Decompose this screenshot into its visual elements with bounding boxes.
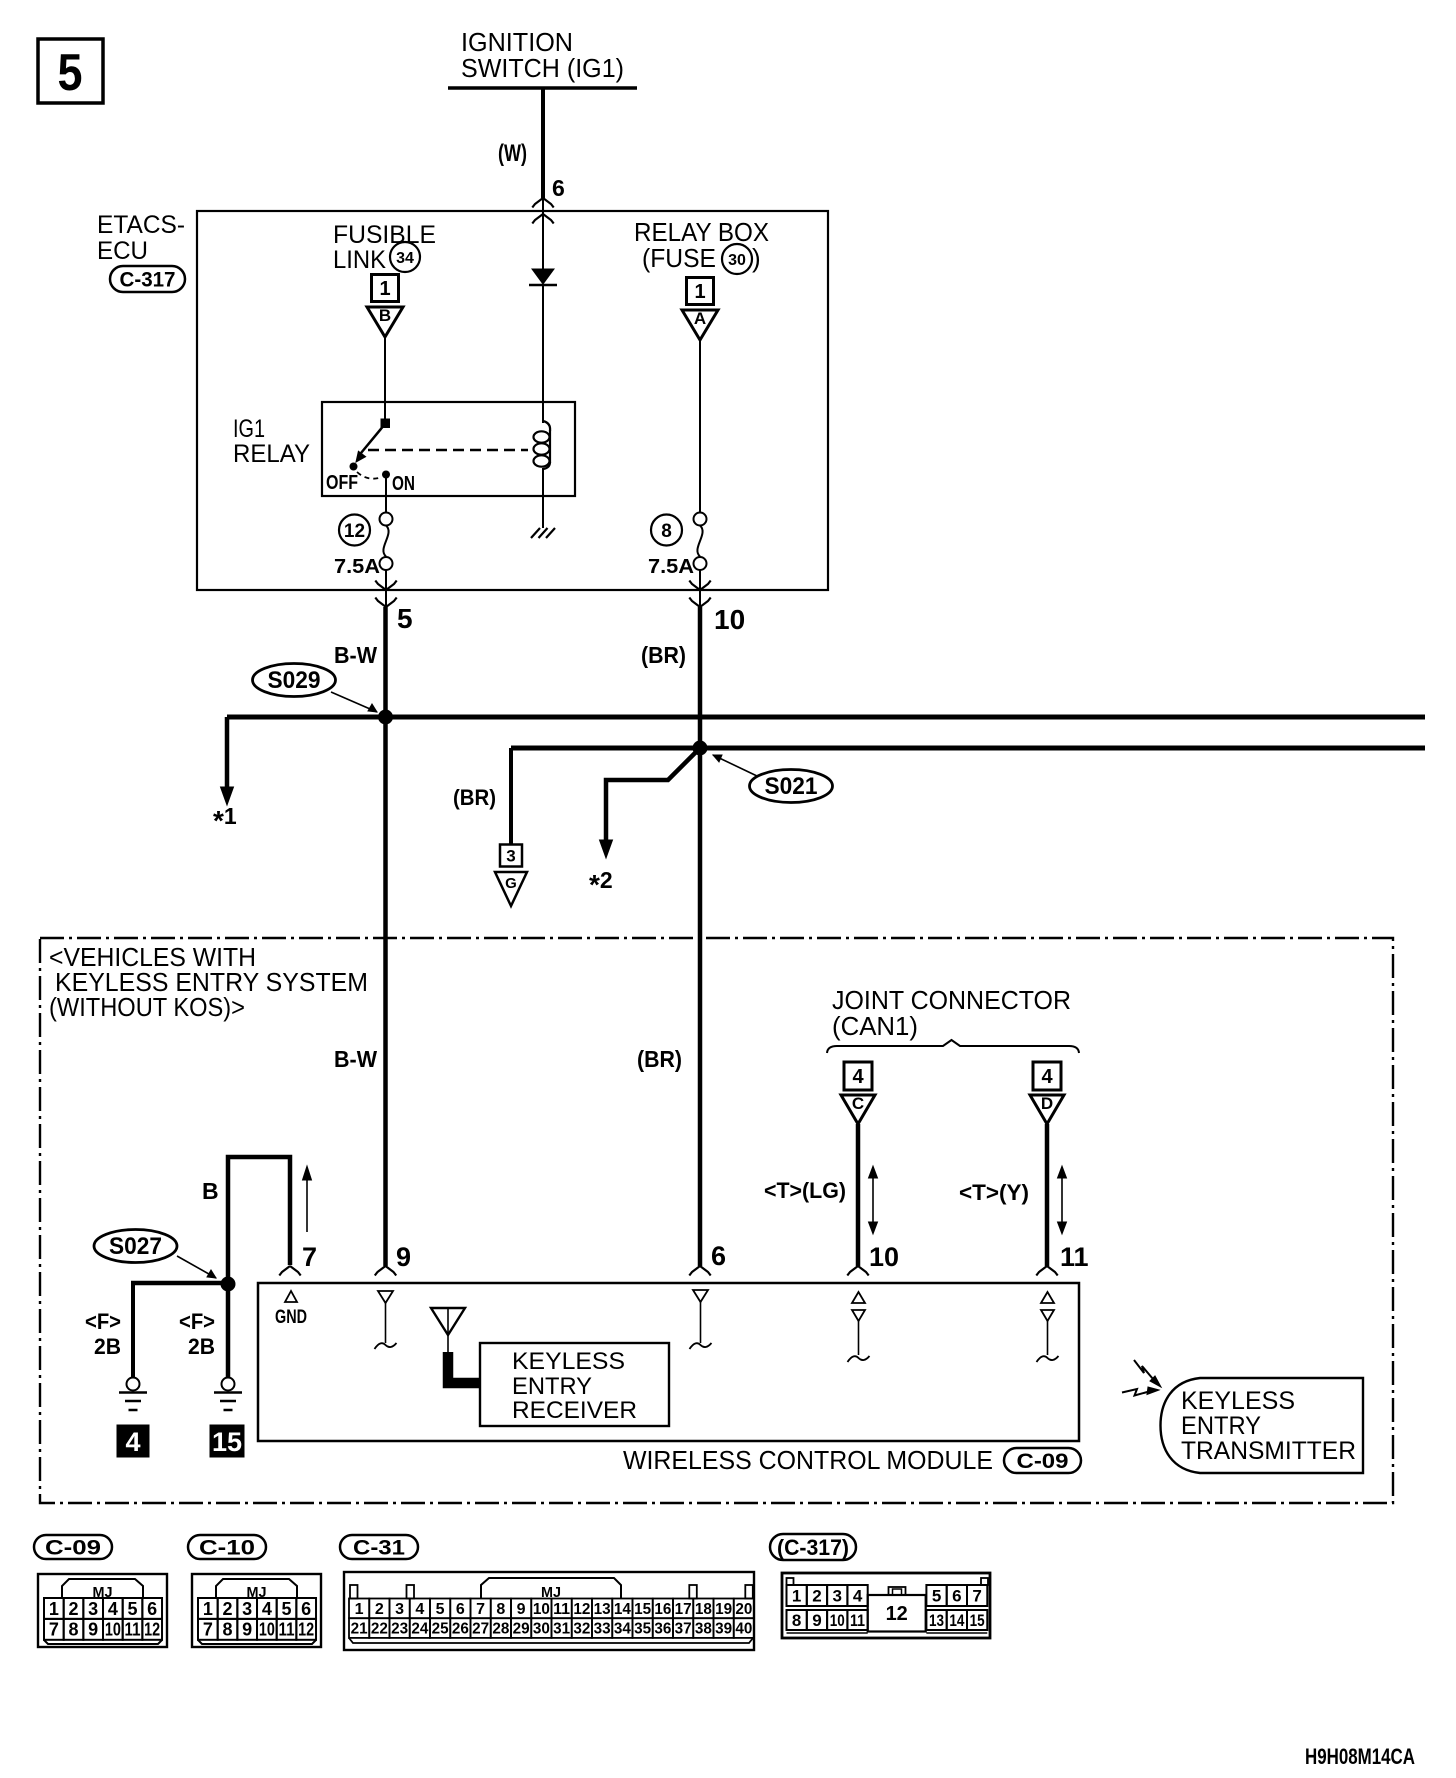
- svg-text:25: 25: [432, 1621, 449, 1638]
- svg-text:5: 5: [932, 1587, 941, 1606]
- svg-text:2: 2: [812, 1587, 821, 1606]
- svg-text:14: 14: [614, 1601, 631, 1618]
- svg-text:21: 21: [351, 1621, 368, 1638]
- svg-text:): ): [752, 243, 761, 273]
- svg-text:34: 34: [614, 1621, 631, 1638]
- svg-text:ETACS-: ETACS-: [97, 211, 185, 239]
- branch wire to *2: [589, 748, 700, 900]
- splice S029: [253, 664, 394, 725]
- svg-text:9: 9: [242, 1620, 252, 1640]
- svg-text:8: 8: [792, 1611, 801, 1630]
- svg-text:1: 1: [49, 1599, 59, 1619]
- svg-text:32: 32: [573, 1621, 590, 1638]
- svg-text:S029: S029: [268, 667, 321, 694]
- branch wire to *1: [213, 717, 237, 836]
- svg-text:C-10: C-10: [199, 1537, 255, 1560]
- svg-text:4: 4: [262, 1599, 272, 1619]
- svg-text:(WITHOUT KOS)>: (WITHOUT KOS)>: [49, 992, 245, 1022]
- svg-text:C: C: [852, 1094, 864, 1113]
- svg-text:15: 15: [634, 1601, 651, 1618]
- svg-text:12: 12: [298, 1620, 314, 1640]
- svg-text:2: 2: [222, 1599, 232, 1619]
- svg-text:7: 7: [302, 1242, 317, 1272]
- svg-text:G: G: [505, 875, 517, 892]
- sheet number box 5: [38, 39, 103, 103]
- svg-text:C-317: C-317: [120, 269, 176, 292]
- ground symbol left: [119, 1378, 147, 1411]
- svg-text:27: 27: [472, 1621, 489, 1638]
- ground branch wires from S027: [131, 1283, 228, 1378]
- svg-text:29: 29: [513, 1621, 530, 1638]
- wireless control module box C-09: [258, 1283, 1079, 1475]
- splice S021: [693, 741, 833, 803]
- module connector label C-09: [1004, 1448, 1081, 1473]
- bidirectional arrow pin11: [1058, 1166, 1067, 1234]
- svg-text:31: 31: [553, 1621, 570, 1638]
- relay box connector 1-A: [682, 278, 718, 341]
- svg-text:3: 3: [88, 1599, 98, 1619]
- fuse 8 (7.5A): [648, 513, 707, 608]
- svg-text:38: 38: [695, 1621, 712, 1638]
- svg-text:RECEIVER: RECEIVER: [512, 1397, 637, 1424]
- svg-text:SWITCH (IG1): SWITCH (IG1): [461, 53, 624, 83]
- ground point 4: [117, 1425, 149, 1457]
- connector view C-317 (bottom): [770, 1534, 990, 1638]
- svg-text:6: 6: [147, 1599, 157, 1619]
- svg-text:GND: GND: [275, 1307, 307, 1328]
- wire from fusible link to relay: [384, 337, 386, 421]
- bus wire from S029 to right edge: [227, 715, 1425, 720]
- svg-text:11: 11: [850, 1611, 865, 1630]
- joint connector 4-D: [1030, 1062, 1064, 1124]
- wire (W) from ignition switch: [498, 88, 543, 198]
- svg-text:1: 1: [203, 1599, 213, 1619]
- module pin 7: [275, 1242, 317, 1328]
- svg-text:4: 4: [415, 1601, 424, 1618]
- svg-text:8: 8: [68, 1620, 78, 1640]
- C-317 pin 10: [689, 581, 745, 636]
- svg-text:1: 1: [694, 281, 705, 303]
- svg-text:35: 35: [634, 1621, 651, 1638]
- svg-text:ENTRY: ENTRY: [1181, 1412, 1261, 1440]
- svg-text:9: 9: [88, 1620, 98, 1640]
- svg-text:10: 10: [869, 1242, 899, 1272]
- svg-text:LINK: LINK: [333, 246, 386, 274]
- svg-text:(W): (W): [498, 140, 527, 167]
- svg-text:ON: ON: [392, 473, 415, 495]
- svg-text:5: 5: [436, 1601, 445, 1618]
- svg-text:S027: S027: [109, 1233, 162, 1260]
- svg-text:23: 23: [391, 1621, 408, 1638]
- svg-text:ENTRY: ENTRY: [512, 1373, 592, 1400]
- svg-text:24: 24: [411, 1621, 428, 1638]
- IG1 relay coil: [534, 421, 551, 528]
- svg-text:4: 4: [125, 1427, 140, 1457]
- ground symbol right: [214, 1378, 242, 1411]
- svg-text:6: 6: [552, 175, 565, 201]
- svg-text:12: 12: [344, 521, 365, 542]
- fusible link connector 1-B: [367, 275, 403, 338]
- svg-text:3: 3: [395, 1601, 404, 1618]
- svg-text:2: 2: [375, 1601, 384, 1618]
- svg-text:3: 3: [506, 847, 515, 866]
- bidirectional arrow pin10: [869, 1166, 878, 1234]
- svg-text:28: 28: [492, 1621, 509, 1638]
- svg-text:9: 9: [396, 1242, 411, 1272]
- connector label C-317: [110, 266, 185, 292]
- svg-text:8: 8: [661, 521, 672, 542]
- svg-text:3: 3: [833, 1587, 842, 1606]
- keyless entry system region (dash-dot box): [40, 938, 1393, 1503]
- svg-text:(BR): (BR): [641, 642, 686, 668]
- svg-text:39: 39: [715, 1621, 732, 1638]
- svg-text:<T>(Y): <T>(Y): [959, 1180, 1029, 1205]
- connector view C-10: [188, 1535, 321, 1647]
- connector C-317 pin 6 (ignition feed): [532, 175, 564, 224]
- svg-text:16: 16: [654, 1601, 671, 1618]
- bus wire 2 (BR) to right edge: [511, 746, 1425, 751]
- svg-text:<F>: <F>: [179, 1309, 215, 1334]
- up arrow beside pin 7 wire: [303, 1166, 312, 1232]
- svg-text:(CAN1): (CAN1): [832, 1011, 918, 1041]
- svg-text:10: 10: [830, 1611, 845, 1630]
- module pin 9: [375, 1242, 412, 1349]
- svg-text:10: 10: [105, 1620, 121, 1640]
- svg-text:2: 2: [68, 1599, 78, 1619]
- radio wave symbol: [1122, 1360, 1161, 1396]
- svg-text:4: 4: [1041, 1066, 1053, 1088]
- ground connector 3-G: [495, 845, 527, 907]
- svg-text:40: 40: [735, 1621, 752, 1638]
- svg-text:<F>: <F>: [85, 1309, 121, 1334]
- svg-text:RELAY: RELAY: [233, 440, 310, 468]
- svg-text:10: 10: [533, 1601, 550, 1618]
- svg-text:17: 17: [675, 1601, 692, 1618]
- region caption: [49, 942, 368, 1022]
- svg-text:KEYLESS: KEYLESS: [1181, 1387, 1295, 1415]
- svg-text:1: 1: [355, 1601, 364, 1618]
- svg-text:7: 7: [49, 1620, 59, 1640]
- svg-text:(C-317): (C-317): [777, 1535, 849, 1560]
- svg-text:15: 15: [212, 1427, 242, 1457]
- svg-text:5: 5: [397, 603, 413, 634]
- IG1 relay box: [233, 402, 575, 496]
- svg-text:30: 30: [533, 1621, 550, 1638]
- svg-text:8: 8: [496, 1601, 505, 1618]
- svg-text:4: 4: [108, 1599, 118, 1619]
- wire B to module pin 7: [202, 1157, 290, 1286]
- svg-text:14: 14: [949, 1611, 964, 1630]
- svg-text:10: 10: [714, 604, 745, 635]
- svg-text:7: 7: [972, 1587, 981, 1606]
- svg-text:9: 9: [812, 1611, 821, 1630]
- svg-text:D: D: [1041, 1094, 1053, 1113]
- svg-text:FUSIBLE: FUSIBLE: [333, 221, 436, 249]
- module pin 10: [847, 1242, 899, 1362]
- svg-text:9: 9: [517, 1601, 526, 1618]
- svg-text:B: B: [379, 306, 391, 325]
- C-317 pin 5: [375, 581, 412, 635]
- svg-text:6: 6: [952, 1587, 961, 1606]
- wire (BR) (pin 10 down): [641, 607, 700, 1266]
- svg-text:H9H08M14CA: H9H08M14CA: [1305, 1744, 1415, 1769]
- svg-text:7: 7: [203, 1620, 213, 1640]
- relay coil ground: [531, 528, 555, 538]
- svg-text:22: 22: [371, 1621, 388, 1638]
- receiver antenna: [431, 1308, 480, 1383]
- svg-text:33: 33: [594, 1621, 611, 1638]
- ETACS-ECU box: [97, 211, 828, 590]
- diode D on ignition feed: [529, 198, 557, 423]
- svg-text:<T>(LG): <T>(LG): [764, 1178, 846, 1203]
- svg-text:C-09: C-09: [45, 1537, 101, 1560]
- svg-text:6: 6: [456, 1601, 465, 1618]
- svg-text:C-31: C-31: [353, 1537, 405, 1560]
- svg-text:7: 7: [476, 1601, 485, 1618]
- relay box fuse 30 label: [634, 217, 769, 274]
- svg-text:18: 18: [695, 1601, 712, 1618]
- svg-text:3: 3: [242, 1599, 252, 1619]
- svg-text:(FUSE: (FUSE: [642, 243, 716, 273]
- svg-text:ECU: ECU: [97, 237, 148, 265]
- svg-text:12: 12: [144, 1620, 160, 1640]
- power source IGNITION SWITCH (IG1): [448, 27, 637, 88]
- svg-text:4: 4: [853, 1587, 863, 1606]
- svg-text:30: 30: [728, 252, 746, 269]
- svg-text:TRANSMITTER: TRANSMITTER: [1181, 1437, 1356, 1465]
- fuse 12 (7.5A): [334, 478, 393, 607]
- svg-text:11: 11: [553, 1601, 570, 1618]
- svg-text:13: 13: [929, 1611, 944, 1630]
- svg-text:10: 10: [259, 1620, 275, 1640]
- svg-text:11: 11: [125, 1620, 141, 1640]
- connector view C-31: [340, 1535, 754, 1650]
- svg-text:11: 11: [279, 1620, 295, 1640]
- svg-text:6: 6: [711, 1241, 726, 1271]
- keyless entry receiver box: [480, 1343, 669, 1426]
- wire B-W (pin 5 down): [334, 607, 386, 1266]
- svg-text:B-W: B-W: [334, 1046, 377, 1072]
- svg-text:KEYLESS: KEYLESS: [512, 1348, 625, 1375]
- svg-text:IG1: IG1: [233, 415, 265, 443]
- svg-text:37: 37: [675, 1621, 692, 1638]
- svg-text:5: 5: [282, 1599, 292, 1619]
- splice S027: [94, 1230, 236, 1292]
- svg-text:B-W: B-W: [334, 642, 377, 668]
- svg-text:5: 5: [58, 44, 83, 102]
- relay link dashed line: [368, 449, 528, 452]
- svg-text:26: 26: [452, 1621, 469, 1638]
- svg-text:19: 19: [715, 1601, 732, 1618]
- svg-text:(BR): (BR): [637, 1046, 682, 1072]
- svg-text:OFF: OFF: [326, 472, 358, 494]
- fusible label F 2B right: [179, 1309, 215, 1359]
- svg-text:2B: 2B: [94, 1334, 121, 1359]
- svg-text:(BR): (BR): [453, 785, 496, 810]
- svg-text:1: 1: [792, 1587, 801, 1606]
- svg-text:15: 15: [970, 1611, 985, 1630]
- svg-text:11: 11: [1060, 1242, 1089, 1272]
- joint connector 4-C: [841, 1062, 875, 1124]
- svg-text:1: 1: [379, 278, 390, 300]
- svg-text:A: A: [694, 309, 706, 328]
- wire pin11 (T)(Y): [959, 1124, 1047, 1266]
- svg-text:C-09: C-09: [1017, 1450, 1069, 1473]
- svg-text:B: B: [202, 1178, 219, 1204]
- ground point 15: [210, 1425, 244, 1457]
- svg-text:7.5A: 7.5A: [648, 556, 694, 578]
- svg-text:12: 12: [886, 1603, 908, 1625]
- module pin 11: [1036, 1242, 1088, 1362]
- svg-text:5: 5: [128, 1599, 138, 1619]
- svg-text:34: 34: [396, 250, 414, 267]
- svg-text:12: 12: [573, 1601, 590, 1618]
- joint connector (CAN1) label: [827, 985, 1079, 1053]
- fusible link 34 label: [333, 221, 436, 274]
- svg-text:WIRELESS CONTROL MODULE: WIRELESS CONTROL MODULE: [623, 1445, 993, 1475]
- svg-text:20: 20: [735, 1601, 752, 1618]
- module pin 6: [689, 1241, 726, 1349]
- wire from relay box fuse to fuse 8: [699, 340, 701, 512]
- IG1 relay switch contact: [326, 402, 415, 495]
- svg-text:7.5A: 7.5A: [334, 556, 380, 578]
- svg-text:6: 6: [301, 1599, 311, 1619]
- svg-text:S021: S021: [765, 773, 818, 800]
- fusible label F 2B left: [85, 1309, 121, 1359]
- svg-text:8: 8: [222, 1620, 232, 1640]
- svg-text:2B: 2B: [188, 1334, 215, 1359]
- wire (BR) branch to ground G: [453, 748, 511, 845]
- svg-text:36: 36: [654, 1621, 671, 1638]
- connector view C-09: [34, 1535, 167, 1647]
- keyless entry transmitter: [1161, 1378, 1364, 1473]
- svg-text:4: 4: [852, 1066, 864, 1088]
- wire pin10 (T)(LG): [764, 1124, 858, 1266]
- svg-text:13: 13: [594, 1601, 611, 1618]
